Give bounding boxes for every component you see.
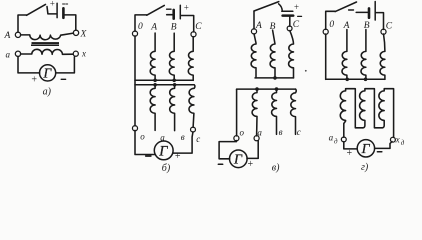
wire battery to X [63,15,75,30]
galvanometer G2 [154,141,173,160]
terminal X [73,30,78,35]
battery positive plate (horizontal) [282,10,293,12]
svg-text:С: С [386,22,393,32]
wire 0-up-top [135,15,147,31]
svg-text:x: x [81,48,86,58]
secondary coil c [189,85,195,128]
terminal a [15,51,20,56]
svg-text:С: С [195,22,202,32]
svg-text:х: х [395,134,400,144]
primary coil A [150,33,155,80]
battery negative plate (horizontal thick) [283,14,294,17]
svg-text:А: А [255,21,262,31]
svg-text:Г: Г [361,142,371,157]
svg-text:+: + [293,2,299,12]
terminal a [254,136,259,141]
wire a_d to galvanometer [344,142,357,149]
switch fixed contact [47,7,56,14]
svg-text:+: + [247,159,254,170]
switch S blade [27,4,46,15]
wire A up [253,11,255,29]
battery - label [349,9,354,11]
wire A-up-top [18,15,27,32]
wire battery down to C [376,13,384,30]
svg-text:в: в [279,127,283,137]
svg-text:д: д [334,137,338,145]
battery - label [298,15,302,17]
secondary star bus [237,88,296,90]
battery negative plate [172,10,175,19]
primary star bus [135,79,193,81]
svg-text:в): в) [272,162,280,173]
svg-text:о: о [240,128,245,138]
galvanometer - [218,163,222,165]
terminal x_d [390,137,395,142]
primary coil B [169,33,174,80]
galvanometer - [377,151,381,153]
primary coil C [188,37,193,81]
secondary coil b [170,85,175,131]
wire contact to battery [356,11,368,13]
svg-text:А: А [150,23,157,33]
wire c to galvanometer [173,132,193,153]
svg-text:+: + [346,148,353,159]
svg-text:б): б) [162,163,171,174]
wire contact to battery [279,4,283,11]
secondary series winding (zigzag) [340,89,363,138]
svg-text:д: д [401,139,405,147]
svg-text:0: 0 [138,22,143,32]
svg-text:с: с [196,134,200,144]
primary winding AX [21,33,74,40]
secondary coil a [252,89,257,136]
svg-text:+: + [183,2,189,12]
terminal A [251,29,256,34]
left neutral wire [236,89,238,136]
primary coil C [289,31,294,78]
svg-text:В: В [364,21,370,31]
battery positive plate [374,2,376,21]
svg-text:+: + [31,75,38,86]
svg-text:0: 0 [329,20,334,30]
svg-text:о: о [140,131,145,141]
terminal o [132,126,137,131]
svg-text:г): г) [361,162,369,173]
terminal C [287,26,292,31]
battery - label [167,8,171,10]
galvanometer - [61,78,65,80]
galvanometer - [146,155,151,157]
svg-text:Г: Г [158,143,168,159]
terminal C [381,29,386,34]
svg-text:В: В [171,22,177,32]
primary star bus [326,78,385,80]
left neutral wire [135,36,155,155]
wire 0 up top [326,11,336,29]
wire galvanometer to a [247,141,258,159]
primary coil B [361,30,366,80]
wire battery down to C [289,17,291,26]
terminal 0 [132,31,137,36]
terminal o [234,136,239,141]
primary star bus [255,77,294,79]
wire battery down to C [181,16,194,32]
wire o to galvanometer [219,141,236,159]
svg-text:Г: Г [233,153,243,168]
svg-text:а: а [257,128,262,138]
svg-text:А: А [343,21,350,31]
svg-text:а: а [6,49,11,59]
terminal C [191,32,196,37]
galvanometer G3 [230,150,248,168]
svg-text:а): а) [43,87,52,98]
terminal A [15,32,20,37]
terminal a_d [341,137,346,142]
secondary coil c [291,89,297,134]
terminal c [191,127,196,132]
svg-text:С: С [293,20,300,30]
junction dots secondary [153,83,157,87]
svg-text:А: А [4,31,11,41]
secondary winding ax [21,49,74,54]
svg-text:+: + [174,151,181,162]
svg-text:X: X [80,30,88,40]
wire contact to battery [167,14,173,16]
svg-text:в: в [181,132,185,142]
battery - label [63,3,68,5]
core [32,42,60,44]
terminal 0 [323,29,328,34]
left neutral wire [325,34,327,79]
secondary coil a [150,85,155,131]
svg-text:Г: Г [42,65,52,80]
svg-text:+: + [49,0,55,9]
junction dot [273,76,277,80]
secondary star bus [135,84,194,86]
switch blade [254,2,279,11]
primary coil B [270,30,275,78]
primary coil A [342,30,347,80]
battery negative plate [368,8,371,17]
svg-text:с: с [297,127,301,137]
primary coil C [380,34,385,79]
wire galvanometer to x [56,57,75,73]
wire a to galvanometer [18,56,40,73]
junction dots [255,87,259,91]
primary coil A [251,34,256,78]
galvanometer G1 [40,65,56,81]
battery B1 negative plate [62,8,65,17]
battery B1 positive plate [56,3,58,17]
battery positive plate [179,5,181,19]
galvanometer G4 [357,140,374,157]
junction dots [345,78,349,82]
svg-text:а: а [329,133,334,143]
switch blade [147,5,165,15]
terminal x [73,51,78,56]
wire galvanometer to x_d [375,142,392,149]
secondary coil b [272,89,277,134]
switch blade [335,2,356,12]
junction dots primary [153,79,157,83]
stray scan speck [305,70,307,72]
